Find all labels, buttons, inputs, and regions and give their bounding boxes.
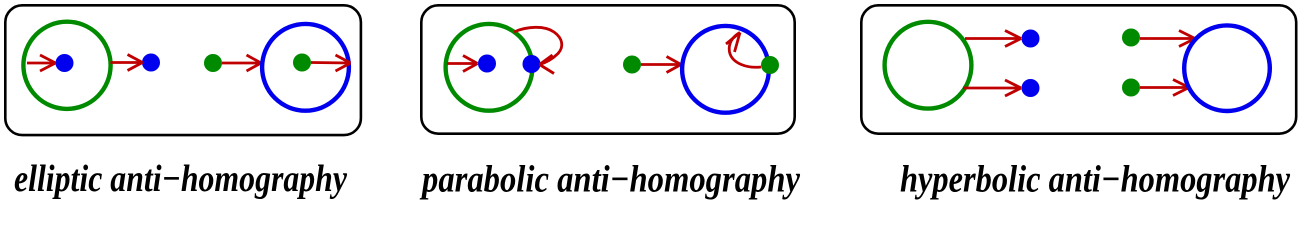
panel 3 lower arrow from green circle — [963, 80, 1021, 96]
panel 1 arrow into second blue dot — [111, 55, 143, 71]
panel 3 lower arrow to blue circle — [1140, 80, 1189, 96]
panel 1 green dot (middle) — [204, 54, 222, 72]
panel 3 upper green dot — [1122, 29, 1140, 47]
panel 2 arrow into center blue dot — [447, 56, 478, 72]
panel 2 blue dot on green circle edge — [523, 55, 541, 73]
panel 3 upper blue dot — [1022, 30, 1040, 48]
panel 2 green circle — [446, 24, 533, 111]
panel 2 box (parabolic) — [421, 5, 794, 133]
panel 2 green dot (middle) — [623, 56, 641, 74]
panel 1 blue circle — [262, 24, 349, 111]
panel 3 upper arrow from green circle — [965, 31, 1021, 47]
panel 2 arrow from green dot to blue circle — [641, 57, 681, 73]
panel 2 blue circle — [682, 26, 769, 113]
panel 2 blue dot at green circle center — [478, 55, 496, 73]
svg-text:hyperbolic anti−homography: hyperbolic anti−homography — [900, 159, 1290, 201]
panel 3 lower green dot — [1122, 79, 1140, 97]
panel 3 green circle — [885, 22, 972, 109]
panel 3 box (hyperbolic) — [861, 5, 1296, 133]
panel 1 box (elliptic) — [5, 5, 361, 135]
panel 1 arrow into left blue dot — [27, 55, 56, 71]
panel 3 blue circle — [1184, 25, 1270, 111]
panel 1 green dot inside blue circle — [293, 54, 311, 72]
panel 1 green circle — [23, 22, 110, 109]
svg-text:elliptic anti−homography: elliptic anti−homography — [14, 158, 347, 200]
panel 2 green dot on blue circle edge — [761, 56, 779, 74]
panel 1 blue dot at green circle center — [56, 54, 74, 72]
panel 3 lower blue dot — [1022, 79, 1040, 97]
panel 2 loop arrow onto edge blue dot — [514, 27, 562, 73]
panel 2 loop arrow from edge green dot to circle top — [726, 33, 761, 68]
panel 1 second blue dot — [142, 54, 160, 72]
panel 1 arrow inside blue circle — [311, 55, 351, 71]
panel 3 upper arrow to blue circle — [1140, 31, 1195, 47]
panel 1 arrow from green dot to blue circle — [222, 55, 261, 71]
svg-text:parabolic anti−homography: parabolic anti−homography — [419, 159, 800, 201]
